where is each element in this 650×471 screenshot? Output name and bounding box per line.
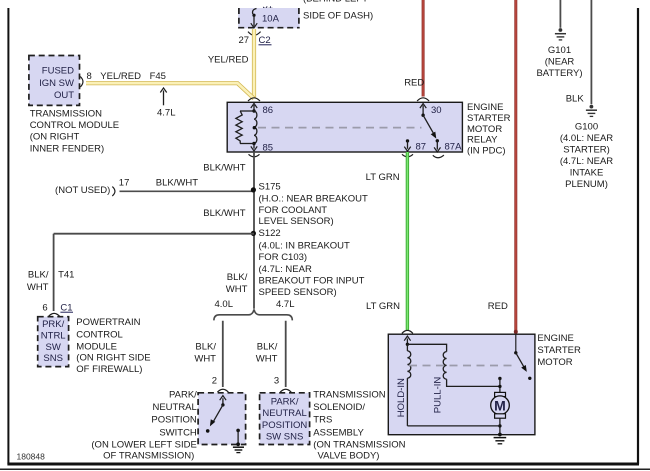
svg-text:3: 3 <box>274 375 279 386</box>
svg-text:(ON RIGHT SIDE: (ON RIGHT SIDE <box>76 353 150 364</box>
svg-text:NEUTRAL: NEUTRAL <box>152 402 196 413</box>
svg-text:POWERTRAIN: POWERTRAIN <box>76 317 140 328</box>
svg-text:MODULE: MODULE <box>76 341 117 352</box>
svg-text:BLK/: BLK/ <box>227 272 248 283</box>
svg-text:SPEED SENSOR): SPEED SENSOR) <box>259 287 337 298</box>
svg-text:STARTER: STARTER <box>537 345 581 356</box>
svg-text:F45: F45 <box>150 71 166 82</box>
svg-text:(H.O.: NEAR BREAKOUT: (H.O.: NEAR BREAKOUT <box>259 194 368 205</box>
svg-text:8: 8 <box>87 71 92 82</box>
svg-text:WHT: WHT <box>226 284 248 295</box>
svg-text:BLK/WHT: BLK/WHT <box>203 162 245 173</box>
svg-text:(NOT USED): (NOT USED) <box>55 185 110 196</box>
svg-text:T41: T41 <box>58 270 74 281</box>
svg-text:TRS: TRS <box>313 415 332 426</box>
svg-text:WHT: WHT <box>27 282 49 293</box>
svg-text:(4.7L: NEAR: (4.7L: NEAR <box>560 156 613 167</box>
svg-text:S175: S175 <box>259 182 281 193</box>
svg-text:BLK/: BLK/ <box>257 341 278 352</box>
svg-text:TRANSMISSION: TRANSMISSION <box>313 389 385 400</box>
svg-text:(4.7L: NEAR: (4.7L: NEAR <box>259 264 312 275</box>
svg-text:SNS: SNS <box>43 353 63 364</box>
svg-text:TRANSMISSION: TRANSMISSION <box>30 108 102 119</box>
svg-text:NEUTRAL: NEUTRAL <box>262 408 306 419</box>
svg-text:ASSEMBLY: ASSEMBLY <box>313 427 364 438</box>
svg-text:(ON RIGHT: (ON RIGHT <box>30 132 80 143</box>
svg-text:85: 85 <box>263 142 274 153</box>
svg-text:87A: 87A <box>445 141 463 152</box>
svg-text:LT GRN: LT GRN <box>366 172 400 183</box>
svg-text:17: 17 <box>119 177 130 188</box>
svg-text:MOTOR: MOTOR <box>467 124 502 135</box>
svg-text:180848: 180848 <box>17 452 46 462</box>
svg-text:STARTER: STARTER <box>467 113 511 124</box>
svg-text:FUSED: FUSED <box>42 66 74 77</box>
svg-text:BLK: BLK <box>566 93 585 104</box>
svg-text:YEL/RED: YEL/RED <box>100 71 141 82</box>
svg-text:PARK/: PARK/ <box>169 389 197 400</box>
svg-text:ENGINE: ENGINE <box>467 102 503 113</box>
svg-text:4.0L: 4.0L <box>215 299 234 310</box>
svg-text:BLK/WHT: BLK/WHT <box>156 178 198 189</box>
svg-text:RED: RED <box>488 301 508 312</box>
svg-text:SW: SW <box>46 342 61 353</box>
svg-text:30: 30 <box>431 105 442 116</box>
svg-text:STARTER): STARTER) <box>563 144 610 155</box>
svg-text:4.7L: 4.7L <box>276 299 295 310</box>
svg-text:OF TRANSMISSION): OF TRANSMISSION) <box>103 451 194 462</box>
svg-text:SIDE OF DASH): SIDE OF DASH) <box>303 10 373 21</box>
svg-text:87: 87 <box>416 141 427 152</box>
svg-text:INTAKE: INTAKE <box>570 167 604 178</box>
svg-text:POSITION: POSITION <box>151 415 197 426</box>
svg-text:4.7L: 4.7L <box>157 108 176 119</box>
svg-text:(NEAR: (NEAR <box>545 56 575 67</box>
svg-text:NTRL: NTRL <box>41 330 66 341</box>
svg-text:SWITCH: SWITCH <box>159 427 197 438</box>
svg-text:WHT: WHT <box>194 354 216 365</box>
svg-text:INNER FENDER): INNER FENDER) <box>30 143 104 154</box>
svg-text:6: 6 <box>42 302 47 313</box>
svg-text:LEVEL SENSOR): LEVEL SENSOR) <box>259 216 334 227</box>
svg-text:G100: G100 <box>575 121 598 132</box>
svg-text:OF FIREWALL): OF FIREWALL) <box>76 364 142 375</box>
svg-text:PARK/: PARK/ <box>271 397 299 408</box>
svg-text:M: M <box>494 397 506 413</box>
svg-text:SOLENOID/: SOLENOID/ <box>313 402 365 413</box>
svg-text:SW SNS: SW SNS <box>266 431 303 442</box>
svg-text:MOTOR: MOTOR <box>537 357 572 368</box>
svg-text:CONTROL: CONTROL <box>76 330 122 341</box>
svg-text:(4.0L: NEAR: (4.0L: NEAR <box>560 133 613 144</box>
svg-text:27: 27 <box>239 35 250 46</box>
svg-text:86: 86 <box>263 105 274 116</box>
svg-text:10A: 10A <box>262 14 280 25</box>
svg-text:VALVE BODY): VALVE BODY) <box>318 451 380 462</box>
svg-text:PLENUM): PLENUM) <box>565 179 608 190</box>
svg-text:OUT: OUT <box>54 90 74 101</box>
svg-text:PULL-IN: PULL-IN <box>432 377 443 414</box>
svg-text:WHT: WHT <box>256 354 278 365</box>
svg-text:BREAKOUT FOR INPUT: BREAKOUT FOR INPUT <box>259 275 365 286</box>
svg-text:RELAY: RELAY <box>467 135 498 146</box>
svg-text:CONTROL MODULE: CONTROL MODULE <box>30 120 119 131</box>
svg-text:(BEHIND LEFT: (BEHIND LEFT <box>303 0 368 4</box>
svg-text:FOR COOLANT: FOR COOLANT <box>259 205 328 216</box>
svg-text:(4.0L: IN BREAKOUT: (4.0L: IN BREAKOUT <box>259 241 351 252</box>
svg-text:(ON TRANSMISSION: (ON TRANSMISSION <box>313 439 405 450</box>
svg-text:RED: RED <box>404 77 424 88</box>
svg-text:PRK/: PRK/ <box>42 319 65 330</box>
svg-text:ENGINE: ENGINE <box>537 333 573 344</box>
svg-text:LT GRN: LT GRN <box>366 301 400 312</box>
svg-text:POSITION: POSITION <box>262 420 308 431</box>
svg-text:FOR C103): FOR C103) <box>259 252 308 263</box>
svg-text:IGN SW: IGN SW <box>39 78 74 89</box>
svg-text:BLK/: BLK/ <box>28 270 49 281</box>
svg-text:BATTERY): BATTERY) <box>536 68 582 79</box>
svg-text:(ON LOWER LEFT SIDE: (ON LOWER LEFT SIDE <box>91 439 196 450</box>
svg-text:(IN PDC): (IN PDC) <box>467 145 506 156</box>
svg-text:S122: S122 <box>259 228 281 239</box>
svg-text:BLK/: BLK/ <box>195 341 216 352</box>
svg-text:BLK/WHT: BLK/WHT <box>203 208 245 219</box>
svg-text:2: 2 <box>212 375 217 386</box>
svg-text:YEL/RED: YEL/RED <box>208 55 249 66</box>
svg-text:G101: G101 <box>548 45 571 56</box>
svg-text:HOLD-IN: HOLD-IN <box>396 378 407 417</box>
